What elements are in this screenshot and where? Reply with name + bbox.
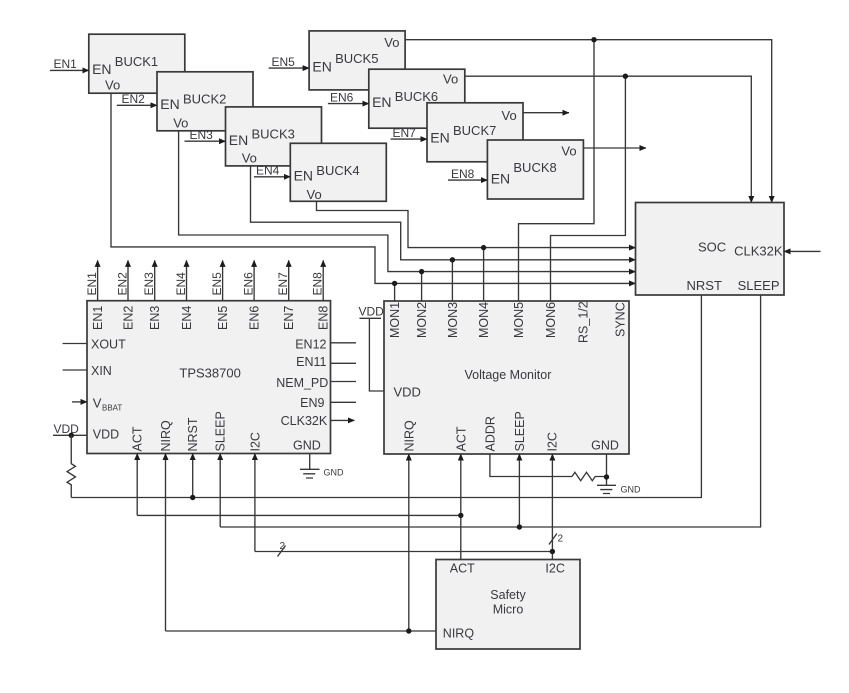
net EN3 input label and arrow into BUCK3 xyxy=(185,128,226,142)
ground symbol at monitor GND xyxy=(597,485,641,495)
svg-text:EN11: EN11 xyxy=(296,355,326,369)
buck converter BUCK1 xyxy=(89,34,185,93)
svg-text:EN2: EN2 xyxy=(122,92,146,106)
svg-text:MON1: MON1 xyxy=(388,302,402,338)
svg-text:EN3: EN3 xyxy=(190,128,214,142)
svg-text:EN6: EN6 xyxy=(248,306,262,330)
wire TPS I2C arrow up xyxy=(254,454,256,552)
wire EN11 stub xyxy=(331,362,357,364)
svg-text:Micro: Micro xyxy=(493,603,524,617)
wire MON6 branch from BUCK6 Vo xyxy=(551,76,626,301)
wire monitor ADDR to resistor xyxy=(490,454,572,477)
svg-text:SLEEP: SLEEP xyxy=(513,411,527,451)
wire BUCK8 Vo output arrow xyxy=(583,147,646,149)
svg-text:CLK32K: CLK32K xyxy=(734,243,783,258)
svg-text:NEM_PD: NEM_PD xyxy=(276,376,328,390)
svg-text:NIRQ: NIRQ xyxy=(159,420,173,452)
wire monitor/safety ACT vertical arrow xyxy=(460,454,462,560)
IC U2 Voltage Monitor xyxy=(384,301,629,454)
buck converter BUCK5 xyxy=(309,31,405,90)
svg-text:EN6: EN6 xyxy=(242,272,256,296)
svg-text:EN3: EN3 xyxy=(148,306,162,330)
svg-text:EN7: EN7 xyxy=(282,306,296,330)
svg-text:CLK32K: CLK32K xyxy=(281,414,328,428)
resistor ADDR to GND (horizontal) xyxy=(572,472,607,480)
svg-text:I2C: I2C xyxy=(546,432,560,451)
wire MON5 branch from BUCK5 Vo xyxy=(519,40,595,301)
svg-text:XIN: XIN xyxy=(91,364,112,378)
svg-text:BUCK4: BUCK4 xyxy=(316,163,359,178)
svg-text:SLEEP: SLEEP xyxy=(738,278,780,293)
svg-text:EN7: EN7 xyxy=(393,126,417,140)
svg-text:ACT: ACT xyxy=(131,426,145,451)
svg-text:EN5: EN5 xyxy=(272,55,296,69)
wire TPS EN6 output arrow up xyxy=(253,260,255,300)
svg-text:EN6: EN6 xyxy=(330,90,354,104)
svg-text:VDD: VDD xyxy=(359,305,385,319)
svg-text:Safety: Safety xyxy=(490,588,526,602)
buck converter BUCK4 xyxy=(290,143,386,202)
svg-text:EN8: EN8 xyxy=(451,167,475,181)
svg-text:Vo: Vo xyxy=(443,72,458,87)
ground symbol at TPS GND xyxy=(300,454,344,479)
svg-text:Vo: Vo xyxy=(242,150,257,165)
bus width slash 2 on I2C near TPS xyxy=(278,541,286,557)
node junction rail2 / MON2 xyxy=(419,269,424,274)
svg-text:GND: GND xyxy=(621,485,642,495)
node junction ACT xyxy=(458,513,463,518)
svg-text:RS_1/2: RS_1/2 xyxy=(577,301,591,343)
svg-text:EN1: EN1 xyxy=(85,272,99,296)
wire MON2 pin drop xyxy=(421,272,423,301)
net EN8 input label and arrow into BUCK8 xyxy=(448,167,487,181)
svg-text:EN1: EN1 xyxy=(54,57,78,71)
svg-text:Vo: Vo xyxy=(173,115,188,130)
net EN6 input label and arrow into BUCK6 xyxy=(328,90,369,104)
wire EN9 stub xyxy=(331,401,357,403)
svg-text:I2C: I2C xyxy=(248,432,262,451)
svg-text:MON2: MON2 xyxy=(415,302,429,338)
node junction GND / resistor xyxy=(604,474,609,479)
node junction rail1 / MON1 xyxy=(392,281,397,286)
svg-text:EN: EN xyxy=(430,130,449,146)
svg-text:EN5: EN5 xyxy=(216,306,230,330)
wire BUCK6 Vo to SOC top xyxy=(465,76,752,202)
wire MON4 pin drop xyxy=(483,248,485,301)
svg-text:EN3: EN3 xyxy=(142,272,156,296)
resistor pullup on NRST (vertical) xyxy=(67,435,75,497)
wire SLEEP net horizontal (TPS to SOC) xyxy=(220,295,760,527)
net EN7 input label and arrow into BUCK7 xyxy=(391,126,427,140)
wire BUCK4 Vo to SOC (via MON4 tap) xyxy=(317,201,636,248)
wire TPS EN5 output arrow up xyxy=(222,260,224,300)
svg-text:EN: EN xyxy=(294,167,313,183)
wire NIRQ net horizontal xyxy=(166,630,437,632)
node junction I2C xyxy=(550,549,555,554)
svg-text:EN4: EN4 xyxy=(180,306,194,330)
svg-text:EN7: EN7 xyxy=(276,272,290,296)
wire TPS EN1 output arrow up xyxy=(97,260,99,300)
buck converter BUCK2 xyxy=(157,72,253,131)
wire BUCK1 Vo to SOC (via MON1 tap) xyxy=(111,93,636,284)
svg-text:EN8: EN8 xyxy=(317,306,331,330)
node junction NRST xyxy=(190,495,195,500)
wire TPS NRST arrow up xyxy=(192,454,194,498)
wire TPS EN3 output arrow up xyxy=(154,260,156,300)
svg-text:SLEEP: SLEEP xyxy=(214,411,228,451)
svg-text:VDD: VDD xyxy=(93,428,119,442)
net EN5 input label and arrow into BUCK5 xyxy=(269,55,310,69)
svg-text:VDD: VDD xyxy=(394,385,421,400)
wire BUCK3 Vo to SOC (via MON3 tap) xyxy=(251,165,636,260)
svg-text:BUCK1: BUCK1 xyxy=(115,54,158,69)
svg-text:SOC: SOC xyxy=(698,239,726,254)
node junction rail3 / MON3 xyxy=(450,257,455,262)
node junction VDD / pullup resistor xyxy=(69,433,74,438)
svg-text:Vo: Vo xyxy=(105,78,120,93)
svg-text:EN4: EN4 xyxy=(174,272,188,296)
svg-text:MON3: MON3 xyxy=(446,302,460,338)
wire BUCK7 Vo output arrow xyxy=(523,112,569,114)
svg-text:VDD: VDD xyxy=(54,422,80,436)
svg-text:EN4: EN4 xyxy=(256,164,280,178)
node junction SLEEP xyxy=(517,524,522,529)
wire VBBAT input arrow xyxy=(72,401,87,403)
svg-text:GND: GND xyxy=(591,439,619,453)
svg-text:2: 2 xyxy=(558,534,564,545)
node junction BUCK5 Vo / MON5 xyxy=(591,37,596,42)
wire NEM_PD stub xyxy=(331,381,357,383)
svg-text:ADDR: ADDR xyxy=(483,416,497,451)
svg-text:ACT: ACT xyxy=(454,426,468,451)
wire CLK32K input arrow into SOC xyxy=(784,250,821,252)
wire BUCK2 Vo to SOC (via MON2 tap) xyxy=(179,130,636,271)
wire TPS EN8 output arrow up xyxy=(322,260,324,300)
node junction NIRQ xyxy=(406,628,411,633)
wire I2C net horizontal xyxy=(255,551,553,553)
svg-text:BUCK8: BUCK8 xyxy=(513,160,556,175)
svg-text:EN: EN xyxy=(312,59,331,75)
svg-text:EN2: EN2 xyxy=(122,306,136,330)
svg-text:EN2: EN2 xyxy=(116,272,130,296)
svg-text:EN1: EN1 xyxy=(91,306,105,330)
net EN4 input label and arrow into BUCK4 xyxy=(254,164,290,178)
wire monitor SLEEP arrow up xyxy=(518,454,520,527)
svg-text:EN: EN xyxy=(160,96,179,112)
svg-text:XOUT: XOUT xyxy=(91,338,126,352)
svg-text:MON6: MON6 xyxy=(544,302,558,338)
wire NRST net (VDD pullup to TPS NRST to SOC NRST) xyxy=(71,295,701,497)
svg-text:I2C: I2C xyxy=(545,562,564,576)
svg-text:SYNC: SYNC xyxy=(614,302,628,337)
svg-text:GND: GND xyxy=(324,468,345,478)
net EN2 input label and arrow into BUCK2 xyxy=(117,92,157,106)
svg-text:BBAT: BBAT xyxy=(102,404,122,413)
svg-text:BUCK6: BUCK6 xyxy=(395,89,438,104)
buck converter BUCK7 xyxy=(427,103,523,162)
svg-text:Vo: Vo xyxy=(307,187,322,202)
svg-text:MON4: MON4 xyxy=(477,302,491,338)
svg-text:EN12: EN12 xyxy=(295,338,326,352)
IC U4 Safety Micro xyxy=(436,560,580,650)
svg-text:NRST: NRST xyxy=(687,278,722,293)
wire TPS EN7 output arrow up xyxy=(288,260,290,300)
wire TPS NIRQ arrow up xyxy=(165,454,167,632)
IC U3 SOC xyxy=(636,203,785,296)
buck converter BUCK3 xyxy=(226,107,322,166)
wire ACT net horizontal xyxy=(137,514,461,516)
svg-text:EN8: EN8 xyxy=(311,272,325,296)
svg-text:NRST: NRST xyxy=(186,417,200,451)
svg-text:EN: EN xyxy=(92,61,111,77)
svg-text:BUCK3: BUCK3 xyxy=(252,126,295,141)
wire TPS ACT arrow up xyxy=(136,454,138,516)
wire XOUT stub xyxy=(63,343,87,345)
wire EN12 stub xyxy=(331,342,357,344)
wire BUCK5 Vo to SOC top xyxy=(405,40,772,203)
wire VDD to TPS VDD pin xyxy=(53,434,87,436)
svg-text:EN: EN xyxy=(491,171,510,187)
node junction rail4 / MON4 xyxy=(481,245,486,250)
svg-text:ACT: ACT xyxy=(450,562,475,576)
svg-text:2: 2 xyxy=(280,541,286,552)
svg-text:EN: EN xyxy=(372,94,391,110)
wire monitor VDD xyxy=(360,318,385,391)
wire TPS EN4 output arrow up xyxy=(186,260,188,300)
svg-text:NIRQ: NIRQ xyxy=(403,420,417,452)
bus width slash 2 on I2C near safety micro xyxy=(549,534,564,545)
wire monitor NIRQ arrow up xyxy=(408,454,410,631)
svg-text:EN: EN xyxy=(229,132,248,148)
svg-text:MON5: MON5 xyxy=(512,302,526,338)
IC U1 TPS38700 xyxy=(87,301,331,454)
node junction BUCK6 Vo / MON6 xyxy=(623,74,628,79)
svg-text:EN9: EN9 xyxy=(300,396,324,410)
svg-text:Vo: Vo xyxy=(502,108,517,123)
svg-text:TPS38700: TPS38700 xyxy=(179,365,240,380)
svg-text:Vo: Vo xyxy=(561,144,576,159)
svg-text:V: V xyxy=(93,396,102,411)
wire TPS SLEEP arrow up xyxy=(219,454,221,528)
svg-text:NIRQ: NIRQ xyxy=(443,627,475,641)
svg-text:BUCK2: BUCK2 xyxy=(183,91,226,106)
svg-text:Voltage Monitor: Voltage Monitor xyxy=(465,368,552,382)
wire MON3 pin drop xyxy=(451,260,453,301)
svg-text:EN5: EN5 xyxy=(210,272,224,296)
buck converter BUCK6 xyxy=(369,69,465,128)
wire monitor/safety I2C vertical arrow xyxy=(551,454,553,560)
svg-text:Vo: Vo xyxy=(384,35,399,50)
wire MON1 pin drop xyxy=(394,283,396,301)
net EN1 input label and arrow into BUCK1 xyxy=(50,57,89,71)
wire XIN stub xyxy=(63,369,87,371)
wire TPS EN2 output arrow up xyxy=(127,260,129,300)
svg-text:BUCK7: BUCK7 xyxy=(453,123,496,138)
wire monitor GND drop xyxy=(606,454,608,485)
buck converter BUCK8 xyxy=(487,140,583,199)
wire TPS CLK32K output arrow xyxy=(331,419,355,421)
svg-text:GND: GND xyxy=(293,439,321,453)
svg-text:BUCK5: BUCK5 xyxy=(335,51,378,66)
